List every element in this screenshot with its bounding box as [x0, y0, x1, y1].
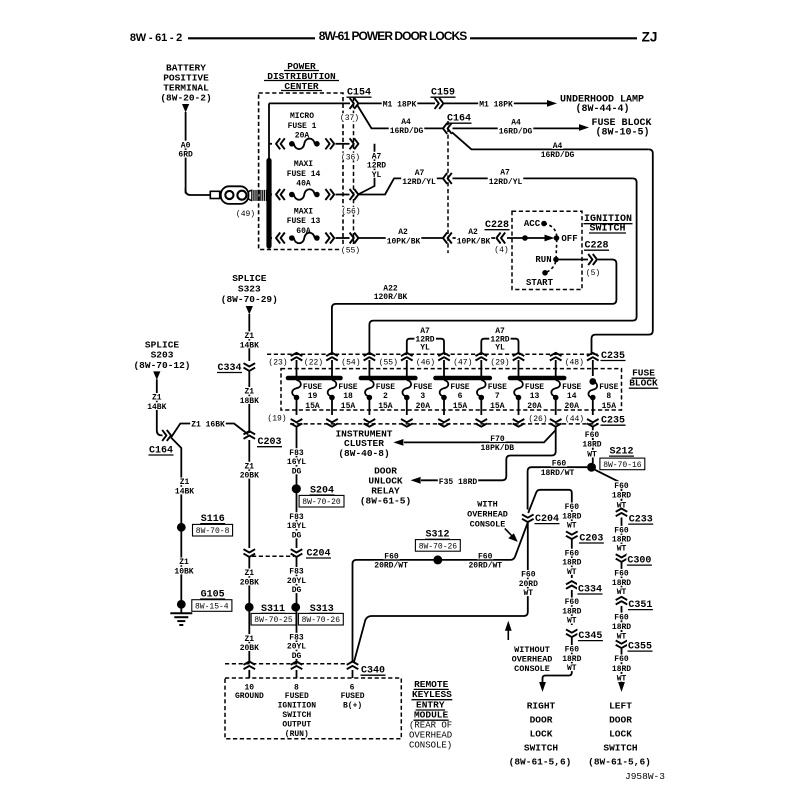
svg-text:CONSOLE): CONSOLE) — [409, 741, 452, 751]
connector C334 inline — [217, 362, 256, 374]
wire M1 18PK to C159 — [269, 100, 435, 110]
svg-text:ACC: ACC — [524, 219, 541, 229]
svg-text:DOOR: DOOR — [530, 714, 553, 725]
svg-text:IGNITION: IGNITION — [278, 702, 317, 711]
svg-text:18RD: 18RD — [562, 655, 581, 664]
fuse block bus bar 2/3 — [361, 376, 415, 381]
svg-text:F83: F83 — [289, 513, 304, 522]
svg-text:F60: F60 — [478, 552, 493, 561]
wire M1 18PK to underhood lamp — [444, 100, 557, 110]
ignition switch rotor arc — [544, 224, 557, 273]
battery source arrow — [182, 104, 189, 113]
svg-text:16RD/DG: 16RD/DG — [390, 127, 424, 136]
wire F83 20YL DG to C340 — [286, 612, 307, 664]
connector C228 label right — [584, 239, 610, 251]
svg-text:Z1: Z1 — [244, 332, 254, 341]
svg-text:(54): (54) — [341, 358, 360, 367]
remote keyless entry module label — [409, 679, 452, 751]
wire Z1 18BK — [239, 371, 260, 433]
svg-text:12RD: 12RD — [367, 162, 386, 171]
fuse block bottom chevrons C235 — [291, 419, 599, 427]
svg-text:19: 19 — [308, 392, 318, 401]
svg-text:20A: 20A — [295, 131, 310, 140]
connector C351 — [616, 597, 654, 611]
svg-text:FUSE: FUSE — [303, 383, 322, 392]
ignition switch title — [584, 214, 633, 234]
connector C340 — [225, 662, 386, 677]
splice S116 — [177, 514, 233, 536]
wire F60 18RD WT below C355 — [611, 648, 632, 684]
svg-text:OVERHEAD: OVERHEAD — [467, 510, 508, 520]
svg-text:WT: WT — [567, 568, 577, 577]
svg-text:16RD/DG: 16RD/DG — [499, 128, 533, 137]
fuse block bus bar 19/18 — [288, 376, 341, 381]
svg-text:(55): (55) — [341, 247, 360, 256]
svg-text:18RD: 18RD — [612, 623, 631, 632]
wire A7 bracket fuses 7/13 — [481, 326, 518, 353]
svg-text:18BK: 18BK — [240, 397, 259, 406]
svg-text:8W - 61 - 2: 8W - 61 - 2 — [130, 32, 182, 44]
fuse block top cavity (54) chevrons — [340, 353, 375, 376]
svg-text:F60: F60 — [565, 549, 580, 558]
svg-text:18RD: 18RD — [612, 579, 631, 588]
svg-text:8W-70-25: 8W-70-25 — [254, 616, 293, 625]
svg-text:Z1: Z1 — [152, 394, 162, 403]
connector C164 label — [447, 114, 472, 125]
fuse 7 15A — [477, 380, 507, 415]
splice S204 — [292, 484, 344, 507]
svg-text:F60: F60 — [552, 460, 567, 469]
svg-text:20A: 20A — [527, 402, 542, 411]
wire Z1 14BK to S116 — [171, 438, 195, 524]
svg-text:YL: YL — [420, 343, 430, 352]
svg-text:(8W-10-5): (8W-10-5) — [595, 127, 649, 139]
svg-text:12RD/YL: 12RD/YL — [489, 178, 523, 187]
svg-text:FUSE 14: FUSE 14 — [287, 170, 321, 179]
fuse 3 20A — [402, 380, 432, 415]
svg-text:18RD: 18RD — [562, 607, 581, 616]
svg-text:(23): (23) — [268, 358, 287, 367]
svg-text:WT: WT — [617, 545, 627, 554]
svg-text:YL: YL — [495, 343, 505, 352]
svg-text:BLOCK: BLOCK — [629, 378, 658, 389]
instrument cluster reference — [335, 428, 392, 459]
svg-text:A7: A7 — [372, 152, 382, 161]
wire Z1 10BK — [173, 532, 194, 601]
svg-text:(26): (26) — [528, 415, 547, 424]
left door lock switch reference — [588, 700, 651, 767]
svg-text:(REAR OF: (REAR OF — [409, 721, 452, 731]
wire F83 18YL DG — [286, 493, 307, 548]
svg-text:18YL: 18YL — [287, 522, 306, 531]
svg-text:(46): (46) — [416, 358, 435, 367]
wire A7 bracket fuses 3/6 — [407, 326, 444, 353]
connector C228 chevrons left — [493, 233, 509, 255]
splice S311 — [245, 602, 296, 625]
connector C334 F60 column — [566, 581, 603, 595]
svg-text:(8W-20-2): (8W-20-2) — [160, 92, 211, 103]
fuse block reference — [591, 118, 651, 139]
svg-text:WT: WT — [567, 522, 577, 531]
svg-text:CONSOLE: CONSOLE — [514, 664, 550, 674]
svg-text:18PK/DB: 18PK/DB — [480, 444, 514, 453]
svg-text:F60: F60 — [614, 570, 629, 579]
svg-text:(8W-61-5,6): (8W-61-5,6) — [588, 756, 651, 767]
wire Z1 16BK jumper — [171, 420, 248, 438]
svg-text:A4: A4 — [553, 142, 563, 151]
svg-text:ZJ: ZJ — [642, 29, 658, 44]
svg-text:8: 8 — [294, 683, 299, 692]
wire A4 16RD/DG to fuse block ref — [453, 118, 590, 137]
wire A7 12RD/YL right-side run — [369, 168, 636, 355]
battery positive terminal label — [160, 62, 211, 103]
svg-text:15A: 15A — [490, 402, 505, 411]
svg-text:DG: DG — [292, 531, 302, 540]
wire F60 18RD WT below C300 — [611, 562, 632, 597]
RKE pin 10 GROUND — [235, 670, 264, 701]
svg-text:A22: A22 — [383, 284, 398, 293]
svg-text:20RD/WT: 20RD/WT — [374, 562, 408, 571]
svg-text:DG: DG — [292, 586, 302, 595]
svg-text:7: 7 — [495, 392, 500, 401]
wire F60 to S312 — [353, 523, 528, 663]
svg-text:A2: A2 — [398, 228, 408, 237]
svg-text:J958W-3: J958W-3 — [625, 771, 665, 782]
svg-text:(49): (49) — [236, 210, 255, 219]
svg-text:120R/BK: 120R/BK — [374, 293, 408, 302]
svg-text:(8W-61-5): (8W-61-5) — [360, 496, 411, 507]
svg-text:(55): (55) — [379, 358, 398, 367]
svg-text:2: 2 — [383, 392, 388, 401]
eyelet terminal at B+ bus — [210, 186, 266, 204]
svg-text:40A: 40A — [296, 179, 311, 188]
svg-text:F83: F83 — [289, 568, 304, 577]
with overhead console note — [467, 500, 518, 542]
splice S312 — [415, 530, 460, 565]
svg-text:15A: 15A — [453, 402, 468, 411]
svg-text:(44): (44) — [565, 415, 584, 424]
svg-text:WITH: WITH — [477, 500, 497, 510]
svg-text:F60: F60 — [614, 482, 629, 491]
svg-text:A7: A7 — [420, 327, 430, 336]
svg-text:F60: F60 — [614, 655, 629, 664]
svg-text:8W-15-4: 8W-15-4 — [195, 602, 229, 611]
maxi fuse 13 60A — [271, 208, 350, 244]
svg-text:8W-70-8: 8W-70-8 — [196, 527, 230, 536]
svg-text:YL: YL — [372, 171, 382, 180]
svg-text:Z1 16BK: Z1 16BK — [191, 421, 225, 430]
svg-text:FUSE: FUSE — [338, 383, 357, 392]
svg-text:FUSED: FUSED — [341, 692, 365, 701]
svg-text:14BK: 14BK — [147, 403, 166, 412]
svg-text:10PK/BK: 10PK/BK — [457, 237, 491, 246]
svg-text:6RD: 6RD — [178, 151, 193, 160]
header rule left — [188, 37, 315, 39]
svg-text:(RUN): (RUN) — [285, 730, 309, 739]
connector C154 cavity (36) chevrons — [340, 138, 361, 162]
fuse 14 20A — [551, 380, 581, 415]
RKE pin 8 FUSED IGNITION SWITCH OUTPUT (RUN) — [278, 670, 317, 739]
fuse block top cavity (22) chevrons — [303, 353, 338, 376]
svg-text:20A: 20A — [416, 402, 431, 411]
fuse block top cavity (48) chevrons — [564, 353, 599, 376]
wire A22 120R/BK — [332, 260, 617, 356]
connector C154 label — [347, 88, 372, 99]
svg-text:15A: 15A — [341, 402, 356, 411]
svg-text:(19): (19) — [267, 414, 286, 423]
svg-text:LOCK: LOCK — [530, 728, 553, 739]
svg-text:18RD: 18RD — [612, 492, 631, 501]
ignition switch ACC contact — [524, 219, 547, 229]
svg-text:FUSE: FUSE — [488, 383, 507, 392]
diagram number J958W-3 — [625, 771, 665, 782]
svg-text:16YL: 16YL — [287, 458, 306, 467]
connector C164 dashed line — [447, 121, 449, 253]
connector C164 inline left chain — [148, 430, 174, 457]
svg-text:A7: A7 — [495, 327, 505, 336]
svg-text:F60: F60 — [585, 431, 600, 440]
fuse block bus bar 6/7 — [436, 376, 490, 381]
wire A4 16RD/DG from C154 — [358, 106, 443, 137]
svg-text:FUSE: FUSE — [376, 383, 395, 392]
svg-text:A7: A7 — [415, 169, 425, 178]
connector C203 F60 column — [566, 531, 604, 544]
wire F60 20RD/WT right of S312 — [468, 552, 504, 571]
splice S323 arrow — [246, 306, 253, 315]
svg-text:DOOR: DOOR — [609, 714, 632, 725]
svg-text:FUSE 13: FUSE 13 — [287, 217, 321, 226]
wire F60 diagonal S212 to C233 column — [595, 470, 632, 511]
svg-text:SWITCH: SWITCH — [603, 742, 638, 753]
fuse 8 15A — [588, 382, 618, 416]
svg-text:20RD/WT: 20RD/WT — [468, 562, 502, 571]
svg-text:Z1: Z1 — [244, 388, 254, 397]
fuse 18 15A — [328, 380, 358, 415]
svg-text:F70: F70 — [490, 435, 505, 444]
wire A2 10PK/BK to C228 — [453, 228, 496, 247]
svg-text:18: 18 — [343, 392, 353, 401]
without overhead console note — [505, 621, 553, 674]
svg-text:FUSE: FUSE — [599, 383, 618, 392]
svg-text:16RD/DG: 16RD/DG — [541, 151, 575, 160]
svg-text:A0: A0 — [181, 141, 191, 150]
svg-text:F60: F60 — [565, 503, 580, 512]
fuse block top cavity (23) chevrons — [267, 353, 302, 376]
svg-text:CONSOLE: CONSOLE — [470, 519, 506, 529]
wire F83 16YL DG — [286, 426, 307, 485]
svg-text:18RD: 18RD — [612, 665, 631, 674]
svg-text:SWITCH: SWITCH — [282, 711, 311, 720]
svg-text:6: 6 — [350, 683, 355, 692]
svg-text:(48): (48) — [565, 358, 584, 367]
svg-text:8W-70-16: 8W-70-16 — [603, 461, 642, 470]
maxi fuse 14 40A — [271, 160, 350, 200]
svg-text:15A: 15A — [602, 402, 617, 411]
svg-text:20BK: 20BK — [240, 644, 259, 653]
svg-text:(37): (37) — [340, 114, 359, 123]
remote keyless entry module dashed box — [225, 678, 401, 739]
svg-text:LOCK: LOCK — [609, 728, 632, 739]
svg-text:FUSE: FUSE — [562, 383, 581, 392]
wire F60 18RD WT below C233 — [611, 518, 632, 554]
svg-text:10: 10 — [244, 683, 254, 692]
svg-text:F60: F60 — [565, 646, 580, 655]
svg-text:F35 18RD: F35 18RD — [439, 478, 478, 487]
wire F83 20YL DG — [286, 557, 307, 603]
connector C154 cavity (55) chevrons — [340, 233, 361, 256]
RKE pin 6 FUSED B(+) — [341, 670, 365, 711]
fuse block top cavity (55) chevrons — [378, 353, 413, 376]
svg-text:14: 14 — [567, 392, 577, 401]
connector C345 F60 column — [566, 629, 603, 642]
svg-text:SWITCH: SWITCH — [524, 742, 559, 753]
connector C164 A2 chevrons — [443, 233, 452, 244]
svg-text:A2: A2 — [468, 228, 478, 237]
svg-text:DG: DG — [292, 652, 302, 661]
ignition switch pole wire — [507, 235, 555, 242]
fuse block bottom cavity (44) — [564, 414, 585, 424]
splice S203 arrow — [153, 371, 160, 380]
power distribution center title — [264, 61, 339, 92]
fuse block top cavity (fuse 14) chevrons — [550, 353, 562, 376]
ground G105 — [177, 589, 232, 611]
svg-text:(5): (5) — [586, 269, 600, 278]
svg-text:(8W-70-29): (8W-70-29) — [221, 294, 278, 305]
svg-text:(36): (36) — [341, 153, 360, 162]
svg-text:20BK: 20BK — [240, 578, 259, 587]
header title 8W-61 POWER DOOR LOCKS — [319, 29, 467, 43]
svg-text:8W-70-26: 8W-70-26 — [302, 616, 341, 625]
connector C203 inline left chain — [244, 431, 283, 448]
svg-text:20YL: 20YL — [287, 577, 306, 586]
svg-text:FUSE: FUSE — [525, 383, 544, 392]
svg-text:MODULE: MODULE — [414, 710, 449, 721]
wire Z1 14BK from S323 — [239, 314, 260, 361]
svg-text:FUSED: FUSED — [285, 692, 309, 701]
svg-text:RUN: RUN — [535, 255, 551, 265]
wire A0 6RD vertical — [177, 112, 193, 194]
wire F60 18RD WT below C203 — [561, 539, 582, 578]
svg-text:15A: 15A — [378, 402, 393, 411]
svg-text:OVERHEAD: OVERHEAD — [409, 731, 452, 741]
connector C159 — [431, 88, 456, 109]
svg-text:(29): (29) — [490, 358, 509, 367]
connector C164 A4 chevrons — [443, 123, 452, 134]
wire RUN output — [556, 259, 588, 261]
svg-text:MICRO: MICRO — [290, 112, 314, 121]
ignition switch RUN contact — [535, 255, 558, 265]
wire F60 branch to C203 column — [528, 490, 582, 531]
svg-text:10PK/BK: 10PK/BK — [387, 237, 421, 246]
svg-text:20BK: 20BK — [240, 472, 259, 481]
connector C228 label left — [485, 220, 510, 231]
splice S323 label — [221, 273, 278, 305]
svg-text:F83: F83 — [289, 449, 304, 458]
wire F60 18RD WT to S212 — [581, 427, 602, 464]
svg-text:(22): (22) — [304, 358, 323, 367]
wire Z1 20BK C204 to S311 — [239, 557, 260, 603]
svg-text:WT: WT — [567, 617, 577, 626]
wire F70 18PK/DB to instrument cluster — [393, 427, 555, 453]
svg-text:Z1: Z1 — [244, 569, 254, 578]
svg-text:FUSE: FUSE — [450, 383, 469, 392]
svg-text:LEFT: LEFT — [609, 700, 632, 711]
svg-text:20RD: 20RD — [519, 580, 538, 589]
connector C164 A7 chevrons — [443, 173, 452, 184]
splice S212 — [587, 447, 645, 472]
svg-text:18RD: 18RD — [562, 559, 581, 568]
svg-text:F60: F60 — [521, 571, 536, 580]
right door lock switch arrow — [539, 682, 546, 692]
micro fuse 1 20A — [269, 112, 350, 149]
wire A4 16RD/DG right-side run — [452, 132, 653, 355]
wire A7 12RD/YL to C164 — [358, 168, 443, 194]
connector C355 — [616, 640, 653, 652]
svg-text:(8W-40-8): (8W-40-8) — [338, 448, 389, 459]
svg-text:18RD: 18RD — [612, 536, 631, 545]
svg-text:Z1: Z1 — [180, 478, 190, 487]
svg-text:20A: 20A — [564, 402, 579, 411]
wire A7 12RD YL micro fuse branch — [358, 144, 387, 195]
connector C228 chevrons right — [585, 254, 601, 278]
wire F35 18RD to door unlock relay — [411, 428, 556, 487]
svg-text:6: 6 — [458, 392, 463, 401]
svg-text:WT: WT — [567, 664, 577, 673]
svg-text:13: 13 — [530, 392, 540, 401]
svg-text:8: 8 — [606, 392, 611, 401]
splice S313 — [291, 602, 343, 625]
svg-text:12RD/YL: 12RD/YL — [402, 178, 436, 187]
svg-text:(56): (56) — [341, 208, 360, 217]
svg-text:60A: 60A — [296, 227, 311, 236]
svg-text:F83: F83 — [289, 634, 304, 643]
svg-text:MAXI: MAXI — [294, 160, 313, 169]
bus feed riser — [268, 103, 270, 161]
svg-text:Z1: Z1 — [244, 462, 254, 471]
svg-text:F60: F60 — [384, 552, 399, 561]
svg-text:(8W-44-4): (8W-44-4) — [575, 103, 629, 115]
svg-text:20YL: 20YL — [287, 643, 306, 652]
terminal cavity label (49) — [236, 210, 255, 219]
svg-text:(47): (47) — [453, 358, 472, 367]
header page number 8W - 61 - 2 — [130, 32, 182, 44]
wire F60 18RD WT below C334 — [561, 590, 582, 626]
underhood lamp reference — [560, 95, 644, 116]
fuse block bus bar 13/14 — [510, 376, 564, 381]
header vehicle code ZJ — [642, 29, 658, 44]
svg-text:WT: WT — [617, 633, 627, 642]
fuse block C235 bottom dashed line — [290, 423, 598, 425]
svg-text:OUTPUT: OUTPUT — [282, 720, 311, 729]
svg-text:M1 18PK: M1 18PK — [383, 100, 417, 109]
fuse block C235 top label — [600, 350, 626, 362]
fuse block label right — [629, 368, 658, 389]
svg-text:15A: 15A — [305, 402, 320, 411]
fuse block top cavity (47) chevrons — [452, 353, 487, 376]
connector C154 dashed line — [353, 97, 355, 253]
fuse 19 15A — [292, 380, 322, 415]
svg-text:18RD/WT: 18RD/WT — [541, 469, 575, 478]
ignition switch dashed box — [512, 211, 582, 289]
svg-text:F60: F60 — [614, 527, 629, 536]
svg-text:(4): (4) — [494, 246, 508, 255]
ground symbol — [170, 608, 192, 625]
svg-text:3: 3 — [420, 392, 425, 401]
fuse 8 feed dot — [589, 378, 596, 385]
fuse block top cavity (46) chevrons — [415, 353, 450, 376]
fuse block bottom cavity (19) — [266, 414, 287, 424]
connector C233 — [616, 509, 654, 526]
